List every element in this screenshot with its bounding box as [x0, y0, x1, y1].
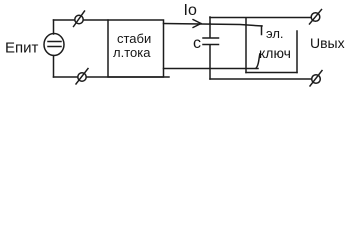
voltage source Епит (circle with = sign)	[44, 34, 64, 56]
svg-text:Епит: Епит	[5, 40, 39, 57]
node junction at capacitor top	[209, 17, 211, 24]
wire: vertical drop from top rail to switch bottom	[245, 18, 247, 73]
svg-text:л.тока: л.тока	[113, 45, 151, 60]
svg-text:Uвых: Uвых	[310, 35, 345, 51]
capacitor C	[203, 24, 219, 80]
svg-text:стаби: стаби	[117, 31, 151, 46]
terminal (bottom input, circle with slash)	[76, 69, 88, 85]
wire: switch box left edge stub	[261, 26, 263, 35]
wire: left vertical from source to top rail	[53, 20, 55, 34]
wire: bottom rail from source to stabilizer box	[54, 76, 170, 78]
wire: stub up to switch box left bottom	[256, 54, 260, 68]
wire: bottom rail from capacitor to output terminal	[210, 78, 312, 80]
wire: left vertical from source to bottom rail	[53, 56, 55, 78]
wire: top rail segment with current Io (stabilizer to node)	[164, 24, 263, 27]
block: current stabilizer (стабил.тока)	[108, 20, 164, 77]
wire: mid rail from stabilizer box to switch	[164, 68, 259, 70]
svg-text:эл.: эл.	[266, 26, 284, 41]
svg-text:c: c	[193, 35, 201, 52]
svg-text:Io: Io	[184, 2, 197, 19]
terminal (top input, circle with slash)	[74, 11, 85, 27]
block: electronic switch right edge	[296, 31, 298, 73]
arrow head for Io current direction	[193, 20, 201, 28]
wire: top rail from node to output terminal	[210, 17, 311, 19]
terminal (bottom output, circle with slash)	[310, 71, 322, 87]
svg-text:ключ: ключ	[259, 45, 291, 61]
wire: top rail from source to stabilizer box	[54, 19, 109, 21]
terminal (top output, circle with slash)	[310, 10, 322, 25]
block: electronic switch (эл.ключ) bottom edge	[246, 72, 297, 74]
